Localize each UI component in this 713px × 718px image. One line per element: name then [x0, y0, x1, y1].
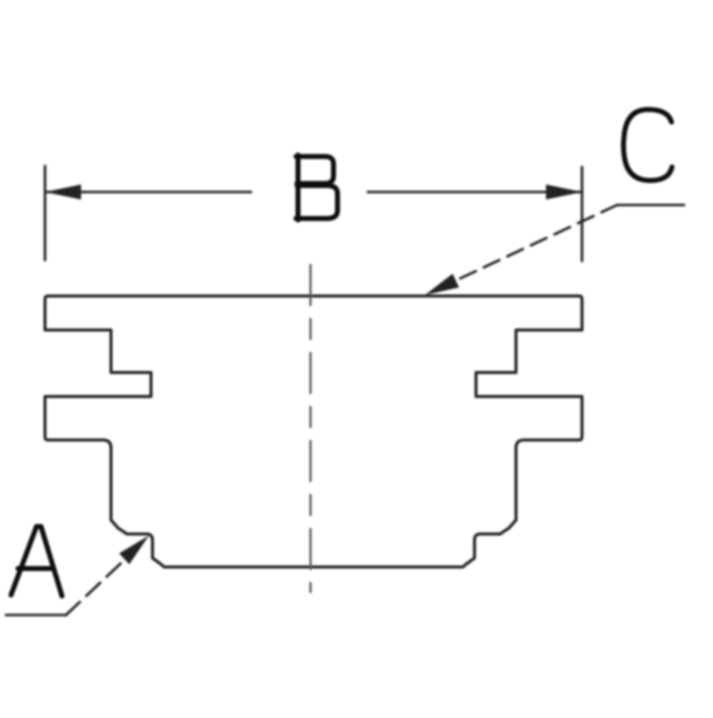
part outline [45, 296, 582, 567]
label letter A [11, 527, 62, 597]
centerline [309, 265, 311, 592]
leader line C diagonal dashed [443, 205, 617, 287]
leader line A horizontal [6, 614, 66, 617]
label letter B [296, 155, 338, 220]
leader arrowhead A [119, 536, 149, 565]
dimension B line right segment [368, 191, 581, 194]
leader line C horizontal [617, 204, 684, 207]
leader arrowhead C [425, 274, 459, 295]
dimension B extension line right [581, 167, 584, 261]
leader line A diagonal dashed [66, 548, 137, 615]
dimension B arrowhead left [45, 185, 81, 200]
label letter C [624, 110, 673, 181]
dimension B line left segment [46, 191, 251, 194]
dimension B extension line left [44, 166, 47, 260]
dimension B arrowhead right [546, 185, 582, 200]
